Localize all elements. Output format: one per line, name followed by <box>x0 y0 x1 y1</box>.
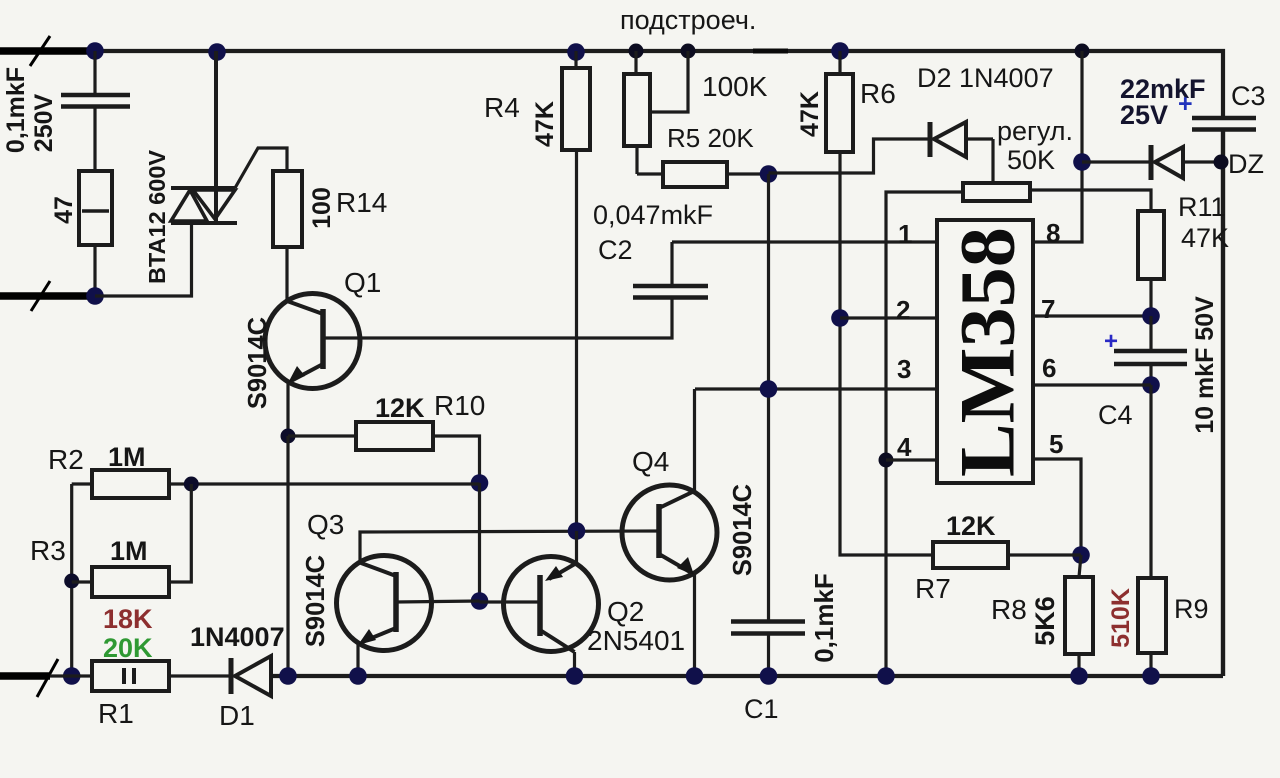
svg-text:S9014C: S9014C <box>244 317 272 409</box>
svg-text:1M: 1M <box>110 536 148 566</box>
wire triac gate <box>235 148 287 188</box>
svg-text:R10: R10 <box>434 390 485 421</box>
resistor R9 510K <box>1107 578 1209 676</box>
wire Q1 emitter down <box>286 383 289 436</box>
node triac MT2 top <box>208 43 226 61</box>
svg-text:BTA12 600V: BTA12 600V <box>144 150 170 284</box>
svg-text:+: + <box>1104 328 1118 355</box>
capacitor C4 10mkF 50V <box>1098 296 1219 434</box>
svg-text:S9014C: S9014C <box>302 555 330 647</box>
resistor R11 47K <box>1138 192 1229 316</box>
svg-text:C2: C2 <box>598 235 633 265</box>
resistor R3 1M <box>30 484 191 597</box>
node Q1 emitter R10 <box>281 429 296 444</box>
node R10 R2 junction <box>471 474 489 492</box>
svg-text:2N5401: 2N5401 <box>587 625 685 656</box>
wire N to triac MT1 <box>95 222 192 296</box>
svg-text:C1: C1 <box>744 694 779 724</box>
resistor R8 5K6 <box>991 555 1093 676</box>
svg-text:Q3: Q3 <box>307 509 344 540</box>
node C1 bottom <box>760 667 778 685</box>
diode DZ <box>1082 145 1264 180</box>
node R6 top <box>831 42 849 60</box>
node R2 R3 right <box>184 477 199 492</box>
svg-text:8: 8 <box>1046 218 1060 248</box>
node riser bottom rail <box>877 667 895 685</box>
wire pin1 C2 top <box>672 240 937 243</box>
capacitor C1 0,1mkF <box>731 573 839 724</box>
wire C1 branch vertical <box>767 174 770 621</box>
svg-text:47K: 47K <box>531 101 559 147</box>
svg-text:1: 1 <box>898 219 912 249</box>
svg-text:0,1mkF: 0,1mkF <box>2 67 30 153</box>
node riser to rail <box>63 667 81 685</box>
svg-text:100K: 100K <box>702 71 768 102</box>
resistor R10 12K <box>288 390 485 483</box>
svg-text:подстроеч.: подстроеч. <box>620 5 756 35</box>
transistor Q4 S9014C <box>622 446 757 676</box>
resistor R1 fusible <box>92 661 169 729</box>
triac BTA12 600V <box>144 51 237 284</box>
wire R6 to R7 left <box>840 152 933 555</box>
svg-text:47: 47 <box>50 196 78 224</box>
node C4 bottom pin6 <box>1142 376 1160 394</box>
wire Q4 collector to pin3 <box>693 389 696 491</box>
svg-text:12K: 12K <box>946 511 996 541</box>
wire Q2 emitter riser <box>575 531 578 563</box>
wire terminal to R1 <box>50 674 92 677</box>
svg-text:0,1mkF: 0,1mkF <box>809 573 839 663</box>
wire pin6 <box>1033 383 1151 386</box>
wire R10 junction to Q2 Q3 base junction <box>478 483 481 601</box>
node R5 right <box>760 165 778 183</box>
svg-text:R7: R7 <box>915 573 951 604</box>
svg-text:Q2: Q2 <box>607 596 644 627</box>
node 100K wiper top <box>681 44 696 59</box>
svg-text:47K: 47K <box>1181 223 1229 253</box>
svg-text:10 mkF 50V: 10 mkF 50V <box>1191 296 1219 434</box>
resistor R14 100 <box>273 171 387 247</box>
wire R2 R3 left riser <box>70 484 73 676</box>
transistor Q3 S9014C <box>302 509 480 676</box>
svg-text:R14: R14 <box>336 187 387 218</box>
node D2 branch top <box>1075 44 1090 59</box>
wire R1 to D1 <box>169 674 233 677</box>
svg-text:R8: R8 <box>991 594 1027 625</box>
svg-text:6: 6 <box>1042 353 1056 383</box>
svg-text:4: 4 <box>897 432 912 462</box>
svg-text:R5 20K: R5 20K <box>667 123 754 153</box>
wire Q1 emitter to bottom rail <box>286 436 289 676</box>
transistor Q2 2N5401 <box>480 557 686 677</box>
node input L <box>86 42 104 60</box>
wire R4 to Q4 base junction <box>575 150 578 531</box>
node Q2 Q3 base junction <box>471 592 489 610</box>
node Q2 collector rail <box>566 667 584 685</box>
capacitor C3 22mkF 25V <box>1120 74 1266 130</box>
wire top rail dark artifact segment <box>753 49 788 54</box>
wire R5 to D2 cathode <box>769 139 931 173</box>
node pin7 C4 top <box>1142 307 1160 325</box>
wire top rail <box>95 51 1223 118</box>
diode D2 1N4007 <box>917 63 1054 183</box>
svg-text:3: 3 <box>897 354 911 384</box>
resistor R7 12K <box>915 511 1081 604</box>
capacitor 0,1mkF 250V input <box>2 51 130 171</box>
wire right rail <box>1221 129 1225 676</box>
node R7 right junction <box>1072 546 1090 564</box>
terminal input N (left-middle mains) <box>0 281 88 311</box>
svg-text:LM358: LM358 <box>944 227 1031 477</box>
node DZ right rail <box>1214 155 1229 170</box>
transistor Q1 S9014C <box>244 267 381 409</box>
svg-text:R9: R9 <box>1174 594 1209 624</box>
node R8 bottom <box>1070 667 1088 685</box>
svg-text:25V: 25V <box>1120 100 1168 130</box>
capacitor C2 0,047mkF <box>593 200 713 298</box>
resistor R5 20K <box>637 123 769 187</box>
wire pin3 <box>695 387 937 390</box>
node input N <box>86 287 104 305</box>
potentiometer 100K <box>624 51 768 174</box>
wire R2 right to R10 junction <box>169 482 480 485</box>
svg-text:R4: R4 <box>484 92 520 123</box>
node pin4 riser <box>879 453 894 468</box>
svg-text:R1: R1 <box>98 698 134 729</box>
wire Q3 collector to Q4 base <box>360 531 659 564</box>
svg-text:12K: 12K <box>375 393 425 423</box>
svg-text:20K: 20K <box>103 633 153 663</box>
svg-text:DZ: DZ <box>1228 149 1264 179</box>
diode D1 1N4007 <box>190 622 285 731</box>
svg-text:D1: D1 <box>219 700 255 731</box>
svg-text:250V: 250V <box>30 93 58 152</box>
svg-text:5K6: 5K6 <box>1030 596 1060 646</box>
svg-text:R2: R2 <box>48 444 84 475</box>
node pin3 C1 <box>760 380 778 398</box>
svg-text:7: 7 <box>1041 294 1055 324</box>
node DZ left <box>1073 153 1091 171</box>
svg-text:R11: R11 <box>1178 192 1226 222</box>
node Q1 emitter rail <box>279 667 297 685</box>
terminal input L (top-left mains) <box>0 36 88 66</box>
wire pin5 to R7 right <box>1033 459 1081 555</box>
svg-text:R3: R3 <box>30 535 66 566</box>
svg-text:регул.: регул. <box>997 116 1073 146</box>
wire bottom rail <box>271 674 1223 678</box>
svg-text:C4: C4 <box>1098 400 1133 430</box>
wire top to DZ to pin8 <box>1033 51 1082 242</box>
wire pin4 <box>886 458 937 461</box>
node Q4 emitter rail <box>686 667 704 685</box>
svg-text:5: 5 <box>1049 429 1063 459</box>
svg-text:+: + <box>1178 90 1193 118</box>
svg-text:R6: R6 <box>860 78 896 109</box>
svg-text:50K: 50K <box>1007 145 1055 175</box>
wire R14 to Q1 collector <box>285 247 288 301</box>
node 100K pot top <box>629 44 644 59</box>
node R3 left <box>64 574 79 589</box>
svg-text:1N4007: 1N4007 <box>190 622 285 652</box>
potentiometer 50K регул. <box>963 116 1073 201</box>
svg-text:C3: C3 <box>1231 81 1266 111</box>
wire C4 to R9 <box>1149 385 1152 578</box>
wire 50K right to R11 top <box>1030 190 1151 211</box>
svg-text:18K: 18K <box>103 604 153 634</box>
terminal input bottom-left mains <box>0 659 58 697</box>
svg-text:Q1: Q1 <box>344 267 381 298</box>
svg-text:S9014C: S9014C <box>729 484 757 576</box>
node R4 top <box>567 43 585 61</box>
op-amp U1 LM358 <box>937 220 1033 483</box>
svg-text:47K: 47K <box>796 91 824 137</box>
node Q3 emitter rail <box>349 667 367 685</box>
node pin2 junction <box>831 309 849 327</box>
svg-text:Q4: Q4 <box>632 446 669 477</box>
wire pin2 <box>840 316 937 319</box>
wire 50K left to pin1 pin4 riser <box>886 192 963 676</box>
resistor 47 (fusible) <box>50 171 112 296</box>
node Q4 base R4 Q2 emitter <box>568 522 586 540</box>
node R9 bottom <box>1142 667 1160 685</box>
svg-text:1M: 1M <box>108 442 146 472</box>
resistor R2 1M <box>48 442 169 498</box>
svg-text:0,047mkF: 0,047mkF <box>593 200 713 230</box>
resistor R4 47K <box>484 51 590 150</box>
wire Q1 base to C2 bottom <box>323 297 672 338</box>
svg-text:510K: 510K <box>1107 588 1135 648</box>
wire pin7 <box>1033 314 1151 317</box>
svg-text:100: 100 <box>308 187 336 229</box>
resistor R6 47K <box>796 51 896 152</box>
svg-text:2: 2 <box>896 295 910 325</box>
svg-text:D2 1N4007: D2 1N4007 <box>917 63 1054 93</box>
